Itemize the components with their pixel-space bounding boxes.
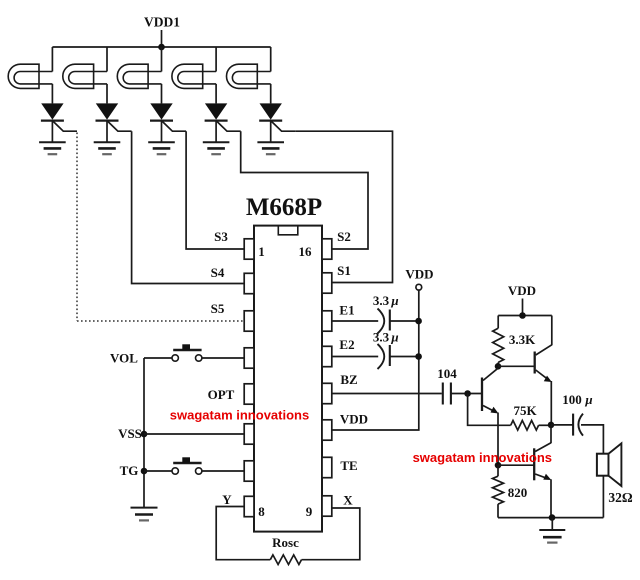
wire VDD right down — [522, 299, 524, 316]
IC left pin box 5 — [244, 384, 254, 404]
IC left pin box 2 — [244, 273, 254, 293]
wire switch SW2 to pin TG — [202, 470, 244, 472]
wire node B to Q3 collector — [550, 425, 552, 443]
wire VOL rail down to ground — [143, 358, 145, 508]
label X — [343, 493, 353, 508]
IC left pin box 1 — [244, 239, 254, 259]
svg-text:E2: E2 — [339, 337, 354, 352]
wire Q3 emitter to bottom rail — [550, 479, 552, 517]
IC left pin box 4 — [244, 348, 254, 368]
wire C2 to VDD rail — [390, 356, 419, 358]
node A junction — [464, 390, 471, 397]
label S3 — [214, 229, 228, 244]
wire VSS to pin — [144, 433, 244, 435]
node E2 junction — [415, 353, 422, 360]
wire Q1 emitter down to node C — [497, 413, 499, 466]
IC right pin box 15 — [322, 457, 332, 477]
gate lead of diode D1 — [52, 121, 77, 132]
diode D2 — [96, 103, 119, 120]
wire rail to ground right — [551, 518, 553, 530]
VDD1 supply label — [144, 15, 180, 30]
diode D4 — [205, 103, 228, 120]
resistor R3 820 — [493, 476, 504, 504]
svg-text:9: 9 — [306, 504, 313, 519]
label C1 3.3u — [373, 293, 399, 308]
svg-text:820: 820 — [508, 485, 528, 500]
label OPT — [208, 387, 235, 402]
wire rail to touch plate TP1 — [51, 47, 53, 72]
node VSS junction — [141, 431, 148, 438]
svg-text:75K: 75K — [513, 403, 537, 418]
label E2 — [339, 337, 354, 352]
wire touch plate TP1 to diode D1 — [51, 84, 53, 104]
speaker LS1 — [597, 443, 622, 486]
watermark right — [413, 450, 552, 465]
wire 75K to node B — [539, 424, 551, 426]
node E1 junction — [415, 318, 422, 325]
svg-text:TG: TG — [120, 463, 139, 478]
wire Rosc to pin X — [302, 508, 360, 560]
svg-text:E1: E1 — [339, 303, 354, 318]
wire TG to switch SW2 — [144, 470, 172, 472]
svg-text:S1: S1 — [337, 263, 351, 278]
diode D1 — [41, 103, 64, 120]
svg-text:32Ω: 32Ω — [608, 490, 633, 505]
wire D3 gate to pin S3 — [186, 131, 244, 249]
transistor Q1 — [482, 368, 499, 413]
capacitor C3 104 — [443, 383, 451, 405]
op IC U1 M668P title — [246, 194, 322, 221]
wire pin E2 to capacitor C2 — [332, 356, 379, 358]
wire C4 to speaker — [581, 425, 603, 454]
label C3 104 — [437, 366, 457, 381]
svg-text:μ: μ — [390, 330, 398, 345]
pin number 16 — [299, 244, 313, 259]
svg-text:μ: μ — [584, 392, 592, 407]
wire D4 gate to pin S2 — [241, 131, 368, 249]
label VDD right — [508, 283, 536, 298]
label TE — [340, 458, 357, 473]
IC left pin box 7 — [244, 461, 254, 481]
svg-text:3.3: 3.3 — [373, 330, 390, 345]
label VOL — [110, 351, 138, 366]
wire node C to Q3 base — [498, 464, 534, 466]
svg-text:Rosc: Rosc — [272, 535, 299, 550]
label VSS — [118, 426, 142, 441]
wire C1 to VDD rail — [390, 320, 419, 322]
svg-text:VDD: VDD — [405, 267, 433, 282]
wire diode D4 to ground — [215, 121, 217, 143]
diode D5 — [259, 103, 282, 120]
label 32 ohm — [608, 490, 633, 505]
label C2 3.3u — [373, 330, 399, 345]
watermark left — [170, 408, 309, 423]
label S5 — [211, 301, 225, 316]
wire rail to touch plate TP2 — [106, 47, 108, 72]
label R3 820 — [508, 485, 528, 500]
wire pin E1 to capacitor C1 — [332, 320, 379, 322]
wire rail to Q2 collector — [551, 316, 553, 346]
IC right pin box 14 — [322, 420, 332, 440]
wire diode D1 to ground — [51, 121, 53, 143]
amp supply rail wire — [498, 315, 552, 317]
transistor Q2 — [535, 345, 552, 382]
IC right pin box 16 — [322, 496, 332, 516]
label Y — [222, 492, 232, 507]
IC right pin box 10 — [322, 273, 332, 293]
node bottom rail junction — [549, 514, 556, 521]
svg-text:104: 104 — [437, 366, 457, 381]
gate lead of diode D3 — [162, 121, 187, 132]
wire Q2 emitter to node B — [550, 381, 552, 425]
wire D1 gate to pin S5 (dotted) — [77, 133, 244, 322]
svg-text:swagatam innovations: swagatam innovations — [413, 450, 552, 465]
resistor R2 75K — [511, 421, 539, 431]
amp bottom rail wire — [498, 517, 603, 519]
IC right pin box 12 — [322, 346, 332, 366]
ground symbol under D4 — [203, 142, 230, 154]
wire 820 to bottom rail — [497, 504, 499, 517]
junction node on VDD1 rail — [158, 44, 165, 51]
svg-text:3.3K: 3.3K — [509, 332, 536, 347]
wire diode D2 to ground — [106, 121, 108, 143]
pin number 8 — [258, 504, 265, 519]
VDD terminal circle — [416, 284, 422, 290]
wire touch plate TP3 to diode D3 — [161, 84, 163, 104]
svg-text:VDD: VDD — [340, 412, 368, 427]
top supply rail wire — [52, 46, 270, 48]
label VDD pin — [340, 412, 368, 427]
capacitor C4 100u — [573, 414, 583, 436]
svg-text:S4: S4 — [211, 265, 225, 280]
pin number 9 — [306, 504, 313, 519]
wire VOL to switch SW1 — [144, 357, 172, 359]
wire C3 to Q1 base — [451, 393, 481, 395]
node C junction — [495, 462, 502, 469]
svg-text:X: X — [343, 493, 353, 508]
wire 3.3K to node D — [497, 362, 499, 368]
IC right pin box 9 — [322, 239, 332, 259]
svg-text:S2: S2 — [337, 229, 351, 244]
ground symbol under D3 — [148, 142, 175, 154]
wire node A down to 75K — [468, 394, 511, 426]
node D junction — [495, 363, 502, 370]
svg-text:1: 1 — [258, 244, 265, 259]
IC notch mark — [278, 226, 298, 235]
ground symbol left — [131, 508, 158, 521]
label C4 100u — [562, 392, 592, 407]
wire rail to touch plate TP5 — [270, 47, 272, 72]
IC right pin box 13 — [322, 383, 332, 403]
label BZ — [340, 372, 358, 387]
pin number 1 — [258, 244, 265, 259]
svg-text:TE: TE — [340, 458, 357, 473]
wire touch plate TP2 to diode D2 — [106, 84, 108, 104]
touch plate TP1 — [8, 64, 52, 88]
touch plate TP4 — [172, 64, 216, 88]
ground symbol under D1 — [39, 142, 66, 154]
touch plate TP3 — [117, 64, 161, 88]
svg-text:100: 100 — [562, 392, 582, 407]
push switch SW2 (TG) — [172, 457, 202, 474]
wire touch plate TP4 to diode D4 — [215, 84, 217, 104]
wire touch plate TP5 to diode D5 — [270, 84, 272, 104]
label S1 — [337, 263, 351, 278]
IC right pin box 11 — [322, 311, 332, 331]
svg-text:BZ: BZ — [340, 372, 358, 387]
touch plate TP5 — [227, 64, 271, 88]
wire VDD terminal down to pin VDD — [332, 290, 419, 430]
wire switch SW1 to pin VOL — [202, 357, 244, 359]
label S2 — [337, 229, 351, 244]
svg-text:μ: μ — [390, 293, 398, 308]
wire pin BZ to capacitor C3 — [332, 393, 442, 395]
IC left pin box 6 — [244, 424, 254, 444]
wire rail to touch plate TP3 — [161, 47, 163, 72]
capacitor C2 3.3u — [378, 344, 390, 369]
svg-text:VDD1: VDD1 — [144, 15, 180, 30]
ground symbol right — [539, 530, 565, 543]
touch plate TP2 — [63, 64, 107, 88]
capacitor C1 3.3u — [378, 309, 390, 334]
svg-text:OPT: OPT — [208, 387, 235, 402]
transistor Q3 — [534, 443, 551, 481]
label VDD middle — [405, 267, 433, 282]
svg-text:Y: Y — [222, 492, 232, 507]
node TG junction — [141, 468, 148, 475]
svg-text:S5: S5 — [211, 301, 225, 316]
label R1 3.3K — [509, 332, 536, 347]
label TG — [120, 463, 139, 478]
label R2 75K — [513, 403, 537, 418]
wire D2 gate to pin S4 — [132, 131, 245, 283]
wire node C to 820 — [497, 465, 499, 476]
label S4 — [211, 265, 225, 280]
wire VDD1 to rail — [161, 30, 163, 47]
wire rail to touch plate TP4 — [215, 47, 217, 72]
IC left pin box 8 — [244, 496, 254, 516]
diode D3 — [150, 103, 173, 120]
ground symbol under D2 — [94, 142, 121, 154]
resistor Rosc — [270, 555, 301, 565]
IC left pin box 3 — [244, 311, 254, 331]
svg-text:8: 8 — [258, 504, 265, 519]
wire diode D5 to ground — [270, 121, 272, 143]
label Rosc — [272, 535, 299, 550]
svg-text:3.3: 3.3 — [373, 293, 390, 308]
wire rail to 3.3K — [497, 316, 499, 329]
wire diode D3 to ground — [161, 121, 163, 143]
svg-text:VOL: VOL — [110, 351, 138, 366]
wire node D to Q2 base — [498, 365, 535, 367]
IC U1 body — [254, 226, 322, 532]
node VDD rail junction — [519, 312, 526, 319]
svg-text:VDD: VDD — [508, 283, 536, 298]
gate lead of diode D2 — [107, 121, 132, 132]
svg-text:swagatam innovations: swagatam innovations — [170, 408, 309, 423]
label E1 — [339, 303, 354, 318]
resistor R1 3.3K — [493, 328, 504, 362]
wire speaker to bottom rail — [602, 476, 604, 518]
svg-text:16: 16 — [299, 244, 313, 259]
wire node B to capacitor C4 — [551, 424, 573, 426]
push switch SW1 (VOL) — [172, 344, 202, 361]
ground symbol under D5 — [257, 142, 284, 154]
gate lead of diode D4 — [216, 121, 241, 132]
gate lead of diode D5 — [271, 121, 296, 132]
svg-text:M668P: M668P — [246, 194, 322, 221]
svg-text:S3: S3 — [214, 229, 228, 244]
wire D5 gate to pin S1 — [295, 131, 392, 282]
svg-text:VSS: VSS — [118, 426, 142, 441]
wire pin Y to Rosc — [216, 507, 270, 560]
node B junction — [548, 422, 555, 429]
